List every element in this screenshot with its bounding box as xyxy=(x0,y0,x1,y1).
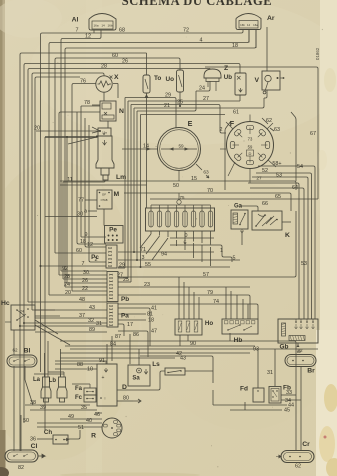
svg-text:92: 92 xyxy=(62,266,68,272)
svg-text:17: 17 xyxy=(127,322,133,328)
svg-text:54: 54 xyxy=(297,164,303,170)
svg-text:Uo: Uo xyxy=(165,76,174,83)
svg-text:24: 24 xyxy=(64,282,70,288)
svg-text:75: 75 xyxy=(180,195,185,200)
svg-text:OF: OF xyxy=(102,193,106,197)
svg-text:78: 78 xyxy=(84,100,90,106)
svg-text:84: 84 xyxy=(110,342,116,348)
svg-text:Lm: Lm xyxy=(116,174,126,181)
svg-text:62: 62 xyxy=(297,349,302,354)
svg-text:N: N xyxy=(119,108,124,115)
svg-text:a: a xyxy=(84,209,87,215)
svg-text:Fc: Fc xyxy=(75,395,83,401)
svg-text:16a: 16a xyxy=(93,24,98,28)
svg-text:K: K xyxy=(285,232,290,239)
svg-text:10: 10 xyxy=(87,367,93,373)
svg-text:Hc: Hc xyxy=(1,300,10,307)
svg-text:65: 65 xyxy=(275,194,281,200)
svg-text:SCHEMA DU CABLAGE: SCHEMA DU CABLAGE xyxy=(122,0,273,8)
svg-text:D: D xyxy=(122,384,127,391)
svg-text:Fb: Fb xyxy=(283,385,291,392)
svg-text:23: 23 xyxy=(144,282,150,288)
svg-text:16b: 16b xyxy=(107,24,112,28)
svg-text:59: 59 xyxy=(178,144,184,149)
svg-text:86: 86 xyxy=(133,332,139,338)
svg-text:68: 68 xyxy=(119,28,125,34)
svg-text:Pb: Pb xyxy=(121,296,129,303)
svg-text:60: 60 xyxy=(112,53,118,59)
svg-text:37: 37 xyxy=(79,313,85,319)
svg-text:50: 50 xyxy=(23,418,29,424)
svg-text:4: 4 xyxy=(200,38,203,44)
svg-text:30: 30 xyxy=(77,212,83,218)
svg-text:Ub: Ub xyxy=(224,74,232,81)
svg-text:Ch: Ch xyxy=(44,429,52,436)
svg-text:77: 77 xyxy=(78,198,84,204)
svg-text:Al: Al xyxy=(72,17,79,24)
svg-text:16b: 16b xyxy=(240,23,245,27)
svg-text:40: 40 xyxy=(86,418,92,424)
svg-text:To: To xyxy=(154,75,161,82)
svg-text:Ga: Ga xyxy=(234,204,243,210)
svg-text:38: 38 xyxy=(30,400,36,406)
svg-text:50: 50 xyxy=(173,183,179,189)
svg-text:1: 1 xyxy=(220,248,223,254)
svg-text:Cr: Cr xyxy=(302,441,310,448)
svg-text:27: 27 xyxy=(256,176,262,182)
svg-text:43: 43 xyxy=(89,305,95,311)
svg-text:Cl: Cl xyxy=(31,443,38,450)
svg-text:62: 62 xyxy=(266,118,272,124)
svg-text:26: 26 xyxy=(82,278,88,284)
svg-text:7: 7 xyxy=(76,28,79,34)
svg-text:Hb: Hb xyxy=(234,337,243,344)
svg-text:24: 24 xyxy=(20,310,24,314)
svg-text:58+: 58+ xyxy=(272,161,281,167)
svg-text:15: 15 xyxy=(191,176,197,182)
svg-text:82: 82 xyxy=(18,465,24,471)
svg-text:73: 73 xyxy=(248,137,253,142)
svg-text:94: 94 xyxy=(161,252,167,258)
svg-text:45: 45 xyxy=(284,408,290,414)
svg-text:27: 27 xyxy=(203,96,209,102)
svg-text:30: 30 xyxy=(83,270,89,276)
svg-text:89: 89 xyxy=(89,327,95,333)
svg-text:80: 80 xyxy=(123,396,129,402)
svg-text:Pe: Pe xyxy=(109,227,117,234)
svg-text:2: 2 xyxy=(220,127,223,133)
svg-text:14: 14 xyxy=(247,23,251,27)
svg-text:48: 48 xyxy=(79,297,85,303)
svg-text:62: 62 xyxy=(12,348,18,353)
svg-text:Br: Br xyxy=(307,368,315,375)
svg-text:72: 72 xyxy=(183,28,189,34)
svg-text:Lb: Lb xyxy=(49,378,57,384)
svg-text:57: 57 xyxy=(203,272,209,278)
svg-text:60: 60 xyxy=(76,248,82,254)
svg-text:18: 18 xyxy=(148,318,154,324)
svg-text:Z: Z xyxy=(224,65,228,72)
svg-text:5: 5 xyxy=(233,256,236,262)
svg-text:M: M xyxy=(114,191,120,198)
svg-text:29: 29 xyxy=(119,263,125,269)
svg-text:0: 0 xyxy=(185,233,188,239)
svg-text:20: 20 xyxy=(65,290,71,296)
svg-text:24: 24 xyxy=(199,86,205,92)
svg-text:47: 47 xyxy=(151,329,157,335)
svg-text:16a: 16a xyxy=(253,23,258,27)
svg-text:42: 42 xyxy=(176,351,182,357)
svg-text:Ls: Ls xyxy=(152,361,160,368)
svg-text:La: La xyxy=(33,377,41,383)
svg-text:51: 51 xyxy=(78,425,84,431)
svg-text:20: 20 xyxy=(34,126,40,132)
svg-text:29: 29 xyxy=(165,93,171,99)
svg-text:18: 18 xyxy=(232,43,238,49)
svg-text:22: 22 xyxy=(82,286,88,292)
svg-text:01862: 01862 xyxy=(315,47,320,60)
svg-text:26: 26 xyxy=(122,59,128,65)
svg-text:63: 63 xyxy=(274,127,280,133)
svg-text:49: 49 xyxy=(68,414,74,420)
svg-text:31: 31 xyxy=(267,370,273,376)
svg-text:+: + xyxy=(102,375,105,381)
svg-text:11: 11 xyxy=(67,177,73,183)
svg-text:Ar: Ar xyxy=(267,15,275,22)
svg-text:70: 70 xyxy=(207,188,213,194)
svg-text:Sa: Sa xyxy=(132,376,140,382)
svg-text:12: 12 xyxy=(85,34,91,40)
svg-text:R: R xyxy=(91,433,96,440)
svg-text:76: 76 xyxy=(80,79,86,85)
svg-text:59: 59 xyxy=(248,145,253,150)
svg-text:63: 63 xyxy=(203,170,209,176)
svg-text:14: 14 xyxy=(101,24,105,28)
svg-text:6: 6 xyxy=(184,240,187,246)
svg-text:25: 25 xyxy=(123,277,129,283)
svg-text:39: 39 xyxy=(40,405,46,411)
svg-text:62: 62 xyxy=(295,464,301,470)
svg-text:61: 61 xyxy=(233,110,239,116)
svg-text:Bl: Bl xyxy=(24,348,31,355)
svg-text:31: 31 xyxy=(96,321,102,327)
svg-text:36: 36 xyxy=(30,437,36,443)
svg-text:66: 66 xyxy=(262,201,268,207)
svg-text:V: V xyxy=(254,77,259,84)
svg-text:Fd: Fd xyxy=(240,386,248,393)
svg-text:53: 53 xyxy=(276,173,282,179)
svg-text:88: 88 xyxy=(77,362,83,368)
svg-text:3: 3 xyxy=(142,255,145,261)
svg-text:52: 52 xyxy=(262,168,268,174)
svg-text:OTAB: OTAB xyxy=(101,198,108,202)
svg-text:79: 79 xyxy=(207,290,213,296)
svg-text:90: 90 xyxy=(190,341,196,347)
svg-text:87: 87 xyxy=(115,334,121,340)
svg-text:D: D xyxy=(249,151,252,156)
svg-text:71: 71 xyxy=(140,247,146,253)
svg-text:74: 74 xyxy=(213,299,219,305)
svg-text:E: E xyxy=(188,119,193,128)
svg-text:35: 35 xyxy=(81,405,87,411)
svg-text:Ho: Ho xyxy=(205,320,213,327)
svg-text:Gb: Gb xyxy=(279,344,288,351)
svg-text:55: 55 xyxy=(145,262,151,268)
svg-text:7: 7 xyxy=(82,261,85,267)
svg-text:Fa: Fa xyxy=(75,386,83,392)
svg-text:Pa: Pa xyxy=(121,313,129,320)
svg-text:32: 32 xyxy=(88,318,94,324)
svg-text:Pc: Pc xyxy=(91,254,99,261)
svg-text:67: 67 xyxy=(310,131,316,137)
svg-text:28: 28 xyxy=(101,64,107,70)
svg-text:21: 21 xyxy=(164,103,170,109)
svg-text:12: 12 xyxy=(87,242,93,248)
svg-text:91: 91 xyxy=(99,358,105,364)
